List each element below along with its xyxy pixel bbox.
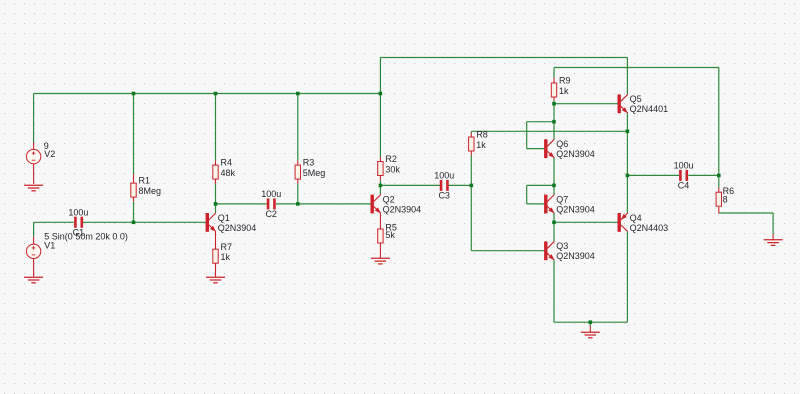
svg-text:8: 8	[723, 195, 728, 205]
svg-text:C4: C4	[678, 180, 690, 190]
svg-text:Q5: Q5	[630, 94, 642, 104]
svg-text:C2: C2	[265, 209, 277, 219]
svg-text:Q7: Q7	[556, 194, 568, 204]
svg-text:5 Sin(0 50m 20k 0 0): 5 Sin(0 50m 20k 0 0)	[44, 231, 128, 241]
svg-text:5k: 5k	[385, 230, 395, 240]
svg-text:1k: 1k	[221, 252, 231, 262]
svg-text:V2: V2	[44, 149, 55, 159]
svg-text:100u: 100u	[674, 161, 694, 171]
svg-text:R8: R8	[476, 130, 488, 140]
svg-text:Q1: Q1	[218, 213, 230, 223]
svg-text:Q3: Q3	[556, 241, 568, 251]
svg-text:48k: 48k	[221, 168, 236, 178]
svg-text:100u: 100u	[261, 189, 281, 199]
svg-text:Q2N3904: Q2N3904	[218, 223, 257, 233]
svg-text:R9: R9	[559, 76, 571, 86]
svg-text:Q2: Q2	[383, 194, 395, 204]
svg-text:100u: 100u	[68, 207, 88, 217]
svg-text:R7: R7	[221, 242, 233, 252]
svg-text:1k: 1k	[559, 86, 569, 96]
svg-text:C3: C3	[438, 190, 450, 200]
svg-text:8Meg: 8Meg	[139, 186, 162, 196]
svg-text:R3: R3	[303, 158, 315, 168]
svg-text:Q2N3904: Q2N3904	[556, 204, 595, 214]
svg-text:R1: R1	[139, 176, 151, 186]
svg-text:R2: R2	[385, 154, 397, 164]
svg-text:5Meg: 5Meg	[303, 168, 326, 178]
svg-text:30k: 30k	[385, 164, 400, 174]
svg-text:100u: 100u	[434, 171, 454, 181]
svg-text:Q2N3904: Q2N3904	[383, 204, 422, 214]
svg-text:Q2N4403: Q2N4403	[630, 223, 669, 233]
svg-text:V1: V1	[44, 241, 55, 251]
svg-text:Q4: Q4	[630, 213, 642, 223]
svg-text:Q2N3904: Q2N3904	[556, 251, 595, 261]
svg-text:R4: R4	[221, 158, 233, 168]
svg-text:Q2N3904: Q2N3904	[556, 149, 595, 159]
svg-text:1k: 1k	[476, 140, 486, 150]
svg-text:Q6: Q6	[556, 139, 568, 149]
svg-text:Q2N4401: Q2N4401	[630, 104, 669, 114]
